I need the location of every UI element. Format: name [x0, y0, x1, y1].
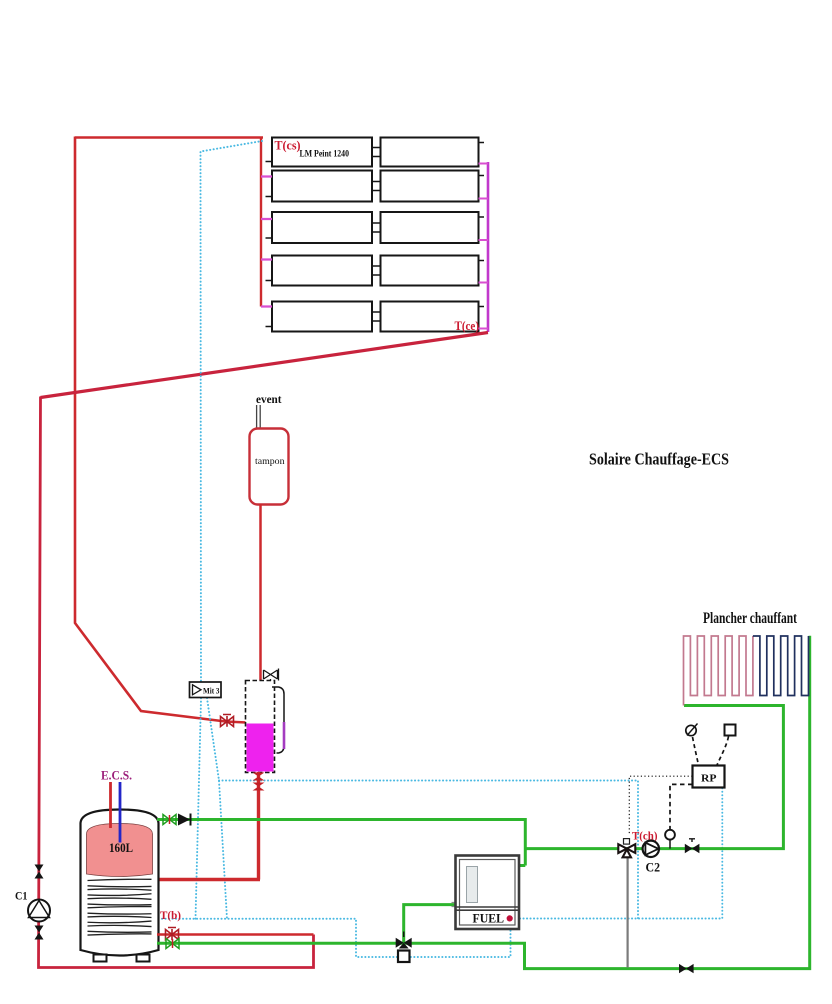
dashed link RP->thermometer	[670, 784, 693, 829]
collector row 2 ticks	[266, 176, 485, 197]
collector row 3 left panel	[272, 212, 372, 243]
svg-text:Plancher chauffant: Plancher chauffant	[703, 610, 798, 627]
svg-text:160L: 160L	[109, 841, 133, 855]
boiler indicator dot	[507, 915, 513, 921]
collector row 2 coupler	[372, 182, 381, 191]
collector supply header (red, left)	[260, 138, 262, 307]
ECS hot water outlet pipe (red)	[109, 782, 112, 828]
svg-text:T(cs): T(cs)	[275, 139, 301, 153]
ECS tank coil	[88, 879, 152, 935]
dotted link RP->mixing valve	[629, 776, 692, 835]
collector row 1 left panel	[272, 138, 372, 167]
sensor wire: T(b) run to boiler and RP	[162, 788, 722, 957]
pump C1	[28, 900, 50, 922]
pipe: floor return down right side and back	[157, 637, 810, 968]
svg-text:T(ce): T(ce)	[455, 318, 480, 333]
valve on ECS top green line	[163, 815, 176, 825]
collector row 4 coupler	[372, 266, 381, 275]
boiler divider	[456, 907, 520, 910]
valve right of C2	[685, 844, 700, 853]
pipe: exchanger bottom down and into ECS tank	[157, 772, 260, 880]
radiant floor loop (cool side)	[753, 636, 809, 696]
collector row 1 right panel	[381, 138, 479, 167]
actuator square on T(ch) valve	[624, 839, 630, 845]
valve above C1	[35, 865, 44, 879]
exchanger tank magenta fill	[247, 724, 274, 772]
double isolation valve below exchanger	[253, 773, 265, 781]
pipe: solar return diagonal from T(ce)	[41, 333, 489, 398]
svg-text:E.C.S.: E.C.S.	[101, 769, 132, 783]
pump C2	[643, 841, 659, 857]
ECS storage tank 160L	[81, 810, 159, 956]
mixing valve (3-way) near boiler	[396, 938, 412, 949]
pipe: collector supply top horizontal	[75, 136, 263, 138]
collector row 1 ticks	[266, 143, 485, 162]
valve on T(b) red line	[166, 928, 179, 941]
collector row 2 right panel	[381, 171, 479, 202]
valve on solar supply at exchanger inlet	[221, 715, 234, 727]
solar collector array	[266, 138, 485, 332]
collector row 3 right panel	[381, 212, 479, 243]
check valve on ECS top line	[178, 814, 190, 826]
svg-text:tampon: tampon	[255, 457, 285, 467]
expansion tank tampon	[250, 429, 289, 505]
svg-text:C1: C1	[15, 891, 28, 903]
svg-text:C2: C2	[646, 861, 661, 875]
outdoor sensor (circle)	[686, 725, 696, 735]
collector row 4 right panel	[381, 256, 479, 286]
ECS tank feet	[94, 955, 107, 962]
collector row 3 ticks	[266, 217, 485, 238]
valve below C1	[35, 926, 44, 940]
sensor wire: Mit3 drop	[207, 698, 227, 919]
collector row 5 ticks	[266, 307, 485, 327]
collector row 4 ticks	[266, 261, 485, 281]
regulator RP	[693, 766, 725, 788]
pipe: mixing valve up to boiler left	[404, 905, 456, 944]
svg-text:event: event	[256, 392, 282, 406]
dashed link square->RP	[717, 737, 729, 766]
svg-text:FUEL: FUEL	[473, 912, 505, 926]
exchanger side loop	[272, 687, 284, 753]
pipe: tampon down to exchanger tank	[259, 504, 262, 681]
ECS cold water inlet pipe (blue)	[119, 782, 122, 843]
svg-text:RP: RP	[701, 773, 717, 785]
valve on ECS bottom green line	[166, 939, 179, 949]
collector row 5 left panel	[272, 302, 372, 332]
dashed link circle->RP	[693, 737, 699, 765]
thermometer on supply	[665, 830, 675, 840]
sensor wire: horizontal at exchanger bottom	[219, 781, 638, 919]
boiler flue/heat exchanger hatch	[467, 867, 478, 903]
collector return header (purple, right)	[487, 162, 490, 332]
valve on bottom green return	[679, 964, 694, 973]
pipe: solar supply left riser down to exchanger valve	[75, 137, 247, 723]
svg-text:T(b): T(b)	[160, 908, 181, 922]
safety valve above exchanger	[264, 669, 279, 682]
sensor wire: T(cs) to controller drop	[196, 141, 263, 919]
svg-text:LM Peint 1240: LM Peint 1240	[300, 149, 350, 159]
collector row 5 right panel	[381, 302, 479, 332]
actuator square below mixing valve	[398, 951, 410, 963]
collector row 2 left panel	[272, 171, 372, 202]
boiler FUEL outer casing	[456, 856, 520, 930]
collector supply stubs (magenta)	[261, 177, 272, 307]
pipe: T(b) red line	[157, 933, 314, 936]
room sensor (square)	[725, 725, 736, 736]
svg-text:Solaire Chauffage-ECS: Solaire Chauffage-ECS	[589, 450, 729, 469]
collector return stubs	[479, 164, 489, 329]
exchanger tank body (dashed)	[246, 681, 275, 773]
pipe: boiler supply to C2 and floor	[525, 706, 783, 849]
pipe: solar return left riser through pump C1	[39, 397, 314, 968]
pipe: ECS top to boiler (green)	[157, 820, 525, 866]
controller Mit 3	[190, 682, 222, 698]
ECS tank hot zone (salmon)	[87, 824, 153, 877]
mixing valve T(ch)	[618, 844, 635, 857]
boiler inlet stub	[452, 903, 456, 907]
collector row 3 coupler	[372, 223, 381, 232]
gray rod from mixing valve T(ch)	[626, 856, 628, 968]
collector row 1 coupler	[372, 148, 381, 157]
radiant floor loop (warm side)	[684, 636, 753, 706]
collector row 4 left panel	[272, 256, 372, 286]
vent pipe (double line)	[257, 405, 261, 428]
svg-text:Mit 3: Mit 3	[203, 686, 220, 696]
collector row 5 coupler	[372, 312, 381, 321]
